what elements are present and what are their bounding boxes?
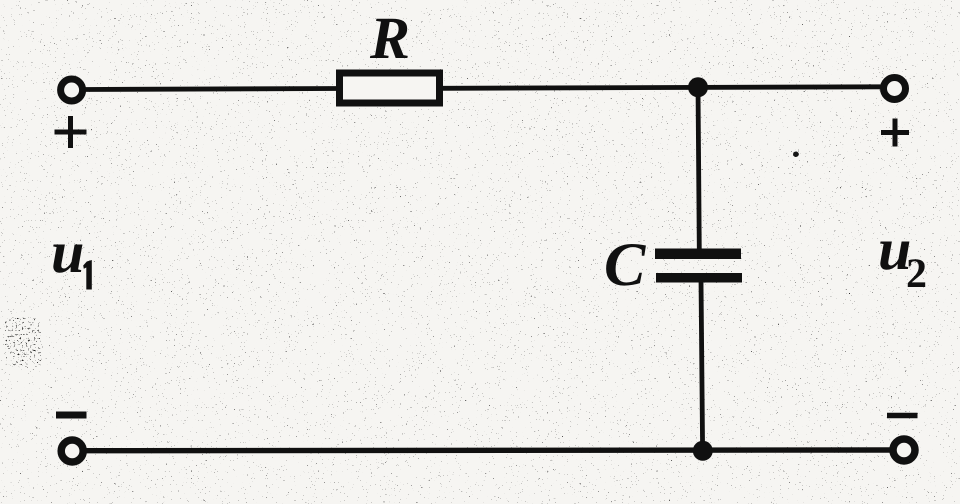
terminal: bottom-right: [893, 439, 915, 461]
terminal: top-left: [61, 79, 83, 101]
minus sign right: [887, 413, 918, 419]
wire: bottom (left terminal to right terminal): [85, 447, 891, 453]
svg-text:C: C: [604, 231, 646, 299]
plus sign right: [881, 119, 909, 147]
terminal: top-right: [884, 78, 906, 100]
wire: top left segment (input terminal to resistor): [84, 89, 337, 90]
svg-text:2: 2: [906, 251, 927, 297]
resistor R: [340, 73, 440, 103]
wire: top right segment (resistor to output terminal): [442, 87, 882, 89]
wire: capacitor top lead: [698, 86, 699, 251]
svg-text:u: u: [51, 219, 84, 285]
terminal: bottom-left: [61, 440, 83, 462]
plus sign left: [55, 116, 87, 148]
wire: capacitor bottom lead: [701, 280, 703, 450]
minus sign left: [56, 412, 87, 419]
node: bottom junction: [693, 441, 713, 461]
svg-text:R: R: [369, 5, 410, 71]
capacitor C plates: [655, 249, 742, 283]
node: top junction: [688, 77, 708, 97]
